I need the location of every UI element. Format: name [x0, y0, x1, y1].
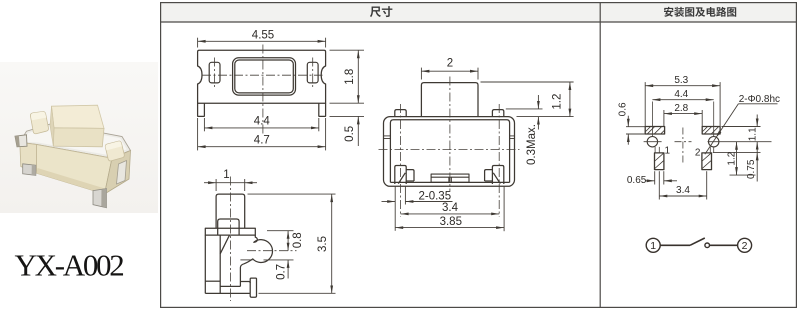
- wire right: [710, 244, 738, 246]
- left hole circle: [647, 137, 657, 147]
- dimension 0.7: [264, 260, 294, 279]
- left top bump: [395, 110, 406, 117]
- right tab: [250, 278, 256, 297]
- dimension 0.3Max: [506, 95, 543, 130]
- svg-text:0.7: 0.7: [275, 264, 287, 280]
- left leg: [198, 103, 205, 116]
- button stem: [216, 194, 245, 228]
- svg-text:0.5: 0.5: [344, 126, 356, 142]
- svg-text:4.4: 4.4: [674, 89, 688, 100]
- dimension 1.8: [330, 50, 365, 103]
- body inner bottom: [390, 181, 509, 183]
- svg-text:YX-A002: YX-A002: [15, 248, 124, 283]
- left foot top: [205, 280, 220, 282]
- center button frame inner: [235, 60, 293, 93]
- dimension 2 (button width): [421, 68, 478, 80]
- header: 安装图及电路图: [664, 7, 736, 17]
- center button frame outer: [233, 58, 296, 95]
- svg-text:0.8: 0.8: [292, 232, 304, 248]
- header: 尺寸: [370, 6, 392, 17]
- center ledge: [431, 174, 469, 182]
- svg-text:3.4: 3.4: [442, 202, 459, 214]
- front-left foot: [23, 164, 36, 176]
- chamfer diagonal: [220, 235, 229, 254]
- left wall inner: [219, 235, 221, 293]
- right terminal chamfer: [493, 173, 500, 184]
- svg-text:2: 2: [695, 147, 701, 158]
- right side hole: [307, 62, 318, 83]
- svg-text:4.4: 4.4: [254, 116, 271, 128]
- left wall tick: [384, 135, 391, 137]
- left metal wing: [15, 135, 27, 147]
- right foot: [93, 189, 107, 208]
- dimension 1 (stem width): [204, 179, 257, 191]
- right bottom pad: [702, 153, 712, 170]
- CIRCUIT diagram: [646, 238, 751, 252]
- wire left: [660, 244, 690, 246]
- dimension 1.1: [713, 115, 761, 153]
- contact point: [705, 243, 710, 248]
- body metal lid: [20, 123, 131, 158]
- circle center lines: [644, 102, 772, 153]
- bottom line: [205, 292, 250, 294]
- right wall tick: [510, 135, 515, 137]
- left side hole: [209, 62, 220, 83]
- right top bump: [492, 110, 503, 117]
- body inner wall: [390, 120, 509, 183]
- svg-text:2-Φ0.8hc: 2-Φ0.8hc: [739, 94, 780, 105]
- PHOTO-AREA: [0, 62, 158, 213]
- svg-text:4.55: 4.55: [252, 30, 274, 42]
- body outline with side notches: [198, 50, 326, 103]
- dimension 3.4: [401, 213, 500, 215]
- svg-text:0.65: 0.65: [627, 175, 647, 186]
- body left end face: [20, 142, 37, 173]
- dimension 4.4: [652, 99, 713, 101]
- svg-text:2: 2: [742, 240, 748, 252]
- body front face: [37, 145, 113, 195]
- dimension 3.5: [248, 194, 336, 293]
- svg-text:4.7: 4.7: [254, 134, 270, 146]
- pad hatching: [646, 127, 720, 169]
- leader 2-phi0.8hc: [705, 104, 778, 155]
- svg-text:1.8: 1.8: [344, 69, 356, 85]
- left terminal chamfer: [398, 173, 405, 184]
- svg-text:3.4: 3.4: [676, 185, 690, 196]
- svg-text:0.3Max.: 0.3Max.: [526, 124, 538, 165]
- svg-text:0.75: 0.75: [746, 159, 757, 179]
- svg-text:0.6: 0.6: [618, 102, 629, 116]
- photo background: [0, 62, 158, 213]
- dimension 1.2 (button height): [481, 82, 574, 117]
- svg-text:2: 2: [447, 57, 453, 69]
- body outer: [384, 117, 515, 187]
- body right end face: [105, 151, 131, 195]
- svg-text:3.5: 3.5: [317, 236, 329, 252]
- svg-text:1.2: 1.2: [551, 94, 563, 110]
- dimension 3.4 (pcb): [659, 171, 706, 199]
- right terminal leg: [492, 166, 503, 185]
- dimension 2-0.35: [382, 187, 453, 231]
- inner ledge line: [240, 259, 252, 261]
- right hole circle: [709, 137, 719, 147]
- dimension 5.3: [645, 82, 720, 126]
- dimension 3.85: [395, 187, 504, 232]
- svg-text:5.3: 5.3: [674, 75, 688, 86]
- flange plate: [205, 228, 255, 235]
- VIEW1 front view: [198, 30, 364, 151]
- switch lever: [690, 238, 705, 245]
- left bottom pad: [655, 153, 664, 170]
- svg-text:1: 1: [665, 145, 671, 156]
- button top face: [52, 105, 105, 128]
- terminal circle 2: [738, 238, 752, 252]
- right leg: [319, 103, 326, 116]
- center lines: [379, 77, 520, 217]
- right profile with contact bulge: [240, 235, 272, 286]
- right top nub: [105, 141, 124, 161]
- svg-text:2-0.35: 2-0.35: [418, 191, 451, 203]
- left terminal step: [406, 170, 414, 181]
- RIGHT PANEL pcb layout: [618, 75, 781, 199]
- left terminal leg: [395, 166, 406, 185]
- dimension 4.55: [198, 38, 326, 48]
- svg-text:3.85: 3.85: [440, 216, 462, 228]
- center lines: [202, 45, 323, 136]
- dimension 4.7: [198, 118, 326, 150]
- center cross dashed: [675, 128, 692, 163]
- left wall outer: [204, 235, 206, 293]
- VIEW2 side view with button: [379, 57, 574, 231]
- TABLE-FRAME: [161, 3, 797, 308]
- dimension 0.5: [330, 116, 365, 146]
- button: [421, 83, 478, 117]
- dimension 1.2: [730, 142, 756, 175]
- left top nub: [30, 112, 48, 134]
- shaft bottom: [220, 285, 240, 287]
- svg-text:1.2: 1.2: [726, 151, 737, 165]
- center lines: [230, 177, 296, 302]
- terminal circle 1: [646, 238, 660, 252]
- svg-text:1.1: 1.1: [747, 127, 758, 141]
- right end metal clip: [117, 161, 127, 185]
- right terminal step: [485, 170, 493, 181]
- dimension 0.8: [267, 231, 294, 251]
- CIRCUIT diagram: [0, 0, 1, 1]
- left top pad: [645, 127, 664, 135]
- right top pad: [702, 127, 720, 135]
- svg-text:2.8: 2.8: [674, 103, 688, 114]
- VIEW3 profile view: [204, 169, 336, 301]
- button left face: [50, 106, 54, 146]
- dimension 2.8: [664, 110, 702, 126]
- collar: [218, 219, 239, 235]
- right foot step: [240, 282, 250, 294]
- svg-text:1: 1: [650, 240, 656, 252]
- svg-text:1: 1: [223, 169, 229, 181]
- dimension 0.75: [756, 152, 758, 181]
- dimension 0.65: [646, 171, 678, 184]
- dimension 0.6: [626, 116, 645, 145]
- button front face: [53, 128, 104, 147]
- dimension 4.4: [204, 118, 318, 131]
